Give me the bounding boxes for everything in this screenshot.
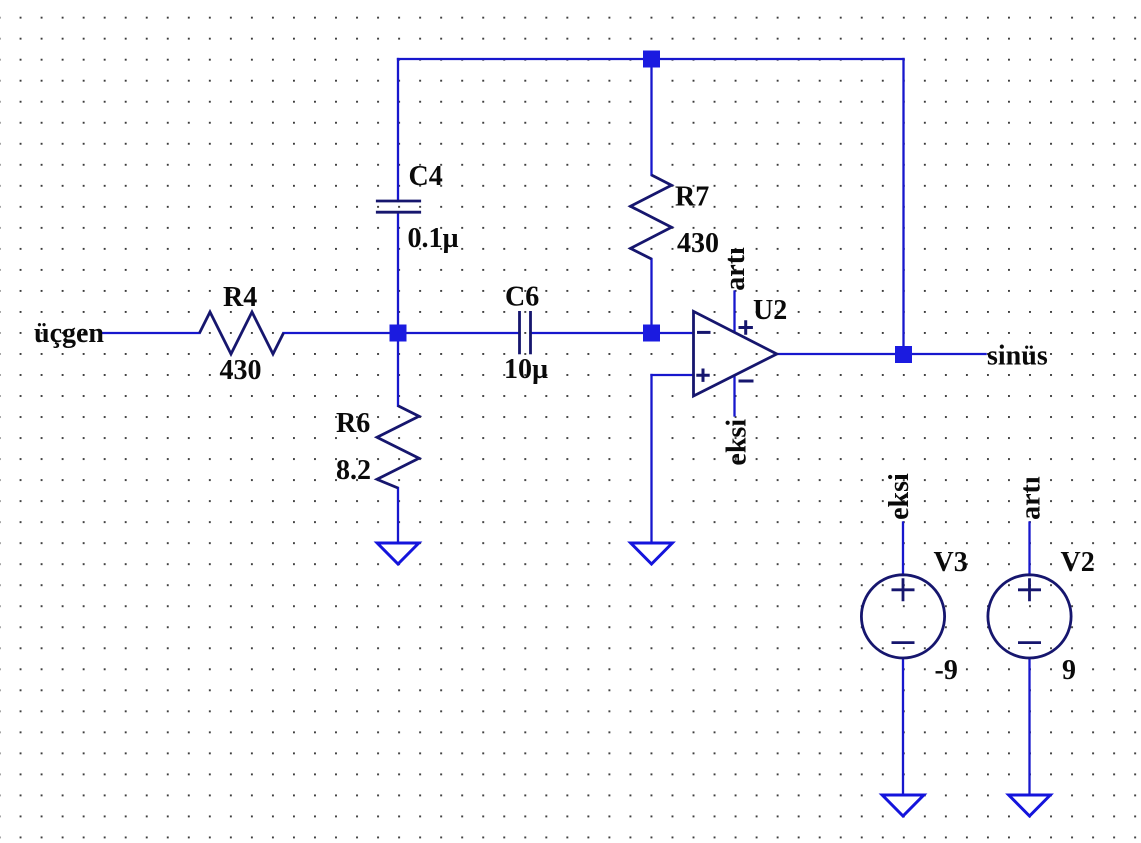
svg-text:V2: V2 xyxy=(1061,547,1095,578)
svg-text:sinüs: sinüs xyxy=(987,341,1048,372)
svg-text:0.1µ: 0.1µ xyxy=(408,223,459,254)
svg-text:430: 430 xyxy=(677,228,719,259)
svg-text:-9: -9 xyxy=(935,655,958,686)
svg-text:V3: V3 xyxy=(934,547,968,578)
svg-text:R4: R4 xyxy=(223,282,257,313)
svg-text:R6: R6 xyxy=(336,408,370,439)
svg-text:eksi: eksi xyxy=(884,473,915,520)
svg-text:430: 430 xyxy=(220,355,262,386)
svg-text:artı: artı xyxy=(720,247,751,291)
svg-text:R7: R7 xyxy=(675,182,709,213)
svg-text:10µ: 10µ xyxy=(504,354,548,385)
svg-text:artı: artı xyxy=(1016,476,1047,520)
svg-text:8.2: 8.2 xyxy=(336,455,371,486)
svg-text:C6: C6 xyxy=(505,282,539,313)
svg-text:üçgen: üçgen xyxy=(34,318,104,349)
svg-text:9: 9 xyxy=(1062,655,1076,686)
svg-text:eksi: eksi xyxy=(722,419,753,466)
svg-text:C4: C4 xyxy=(409,161,443,192)
svg-text:U2: U2 xyxy=(753,295,787,326)
